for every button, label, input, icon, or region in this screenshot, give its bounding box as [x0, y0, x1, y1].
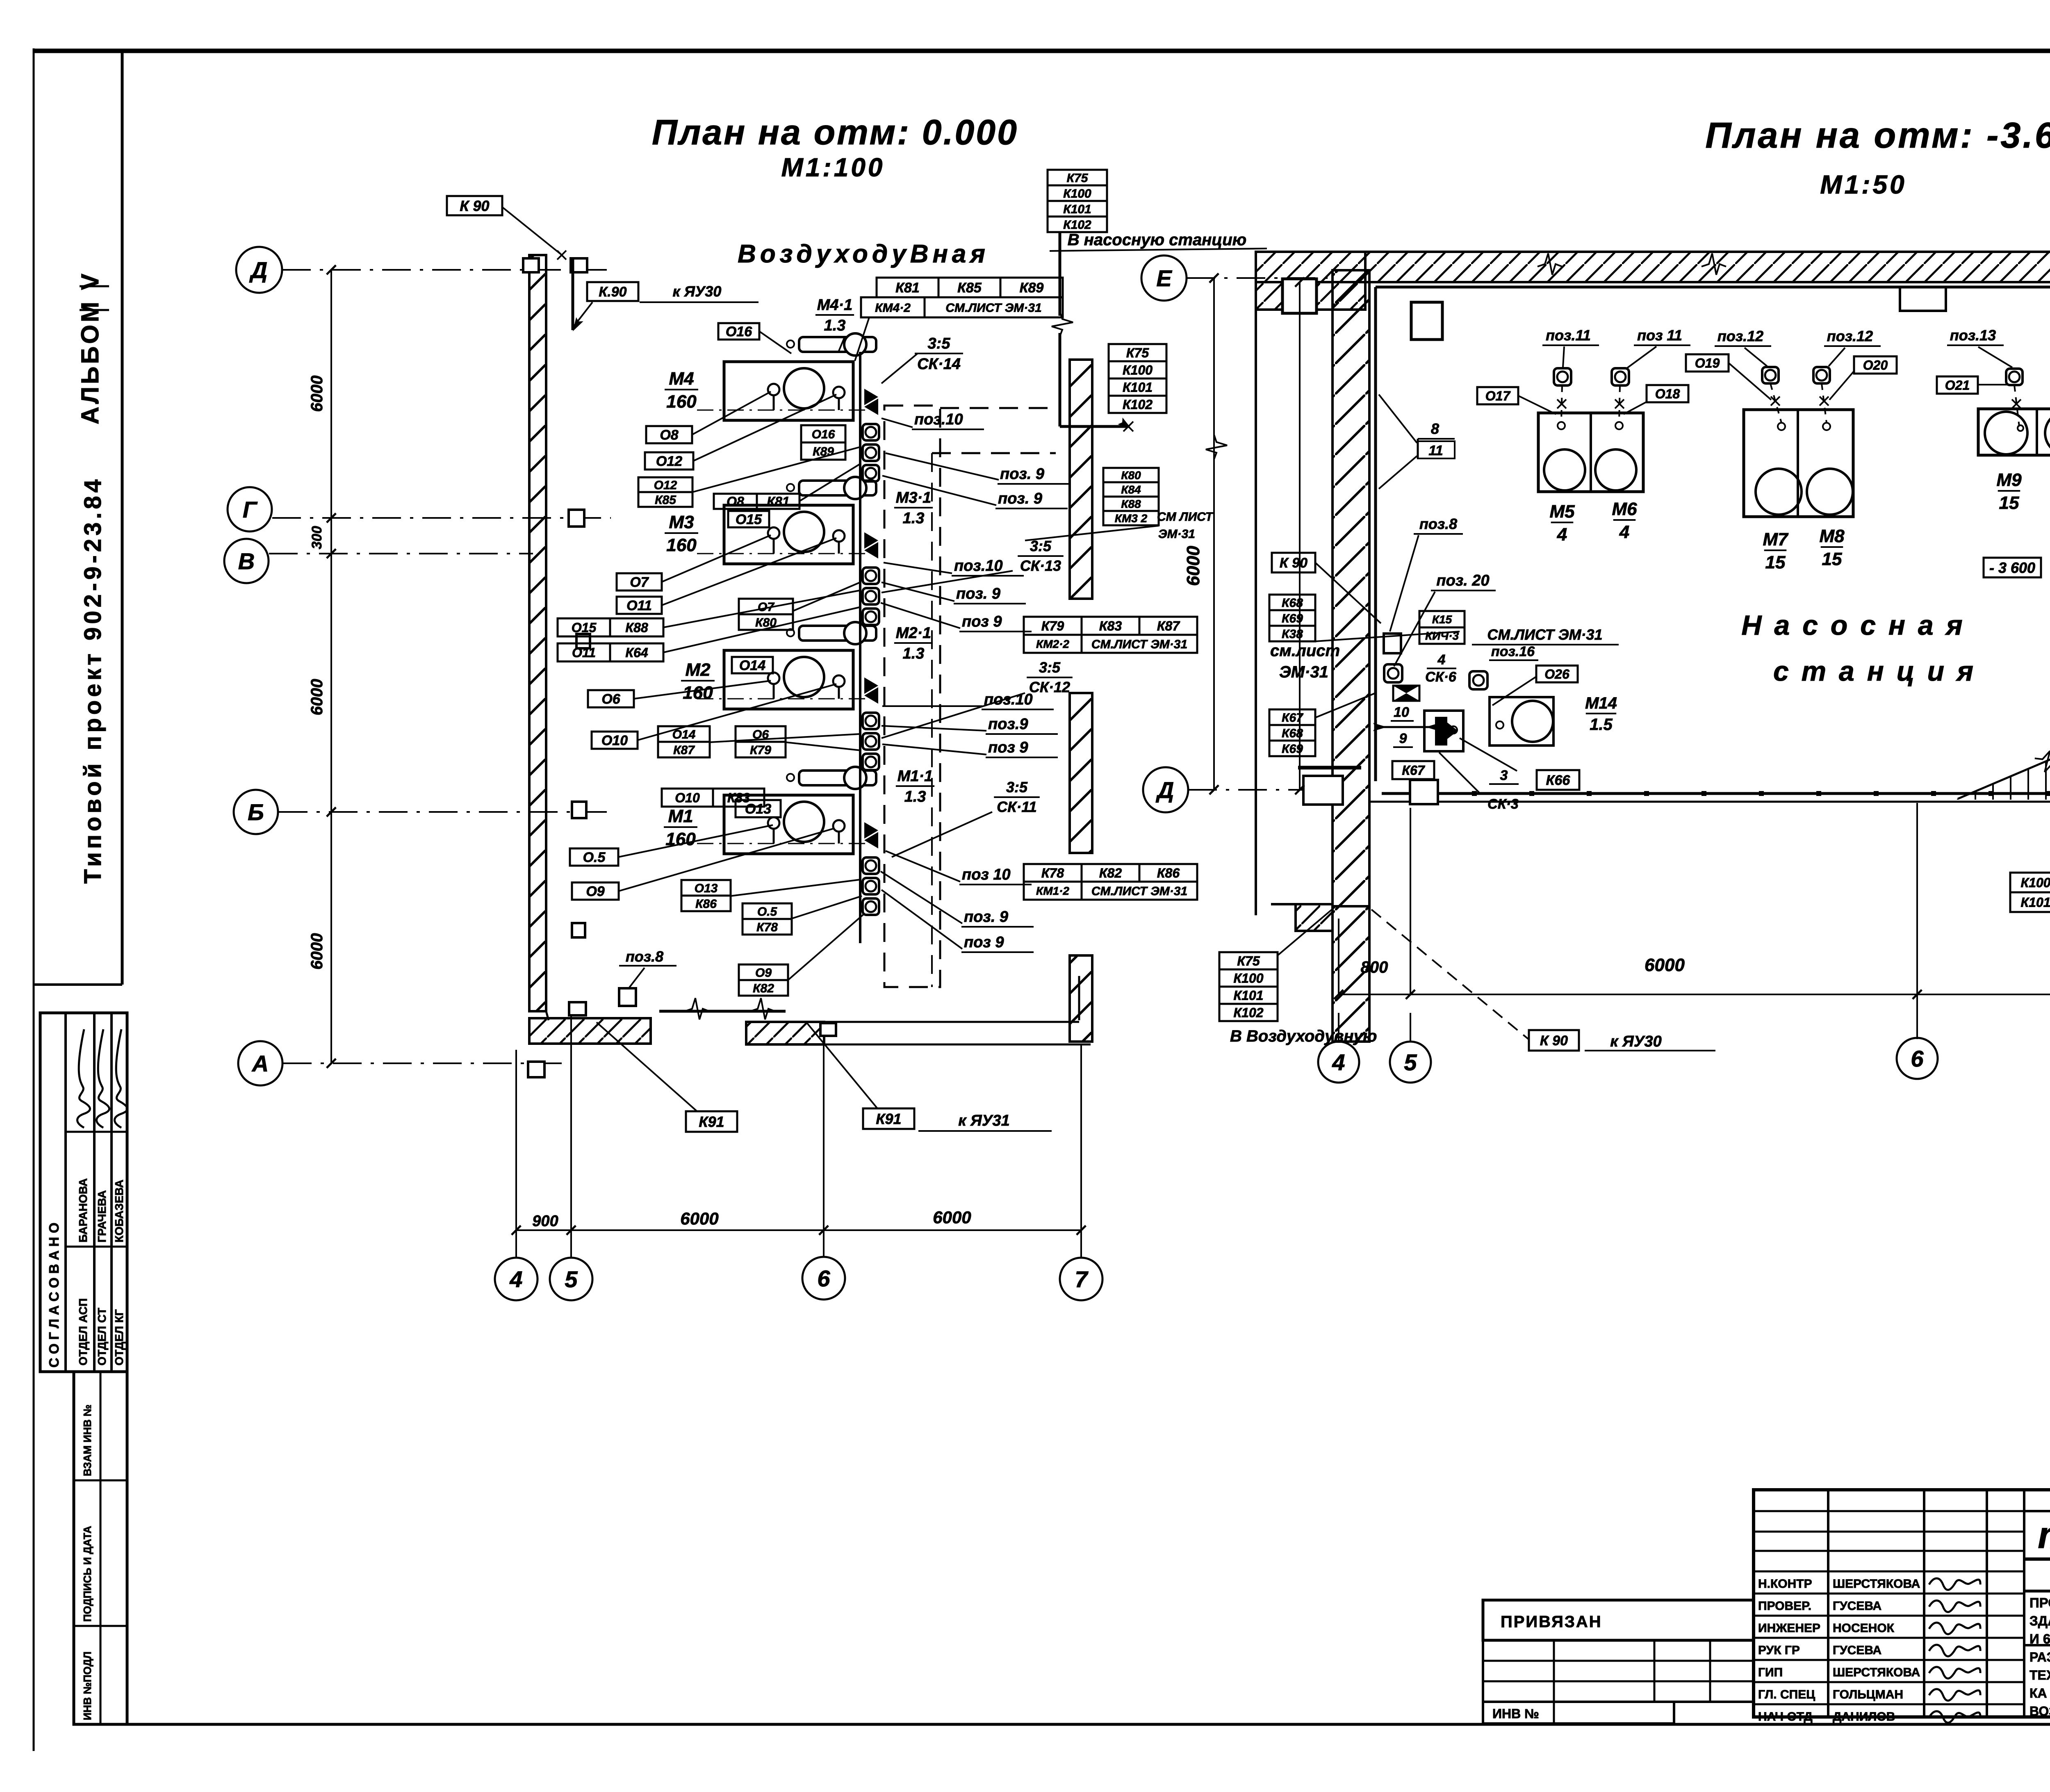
- svg-text:поз.9: поз.9: [988, 716, 1028, 733]
- svg-text:ГУСЕВА: ГУСЕВА: [1833, 1644, 1881, 1657]
- svg-text:7: 7: [1075, 1266, 1089, 1292]
- svg-text:ДАНИЛОВ: ДАНИЛОВ: [1833, 1710, 1895, 1724]
- svg-text:М3·1: М3·1: [896, 489, 932, 506]
- К91 к ЯУ31 label: [863, 1108, 914, 1129]
- тп number row: [2024, 1510, 2050, 1512]
- svg-text:6000: 6000: [1183, 546, 1203, 586]
- svg-text:см.лист: см.лист: [1270, 642, 1340, 660]
- label О11 К64: [558, 643, 610, 661]
- svg-text:15: 15: [1999, 493, 2019, 513]
- svg-text:11: 11: [1428, 443, 1443, 458]
- axis E circle: [1141, 255, 1187, 301]
- label О6 К79: [736, 726, 786, 742]
- stack K80: [1103, 468, 1159, 482]
- svg-text:ОТДЕЛ СТ: ОТДЕЛ СТ: [96, 1308, 108, 1366]
- svg-text:О11: О11: [572, 645, 596, 660]
- svg-text:поз. 20: поз. 20: [1436, 572, 1489, 589]
- inv no box: [1483, 1702, 1674, 1724]
- svg-text:К88: К88: [1121, 498, 1141, 511]
- svg-text:К102: К102: [1123, 397, 1153, 412]
- main title block: [1754, 1490, 2050, 1717]
- svg-text:3:5: 3:5: [928, 335, 951, 352]
- svg-text:6000: 6000: [680, 1209, 718, 1228]
- К90 к ЯУЗО bottom: [1529, 1030, 1579, 1051]
- label О12 К85: [638, 477, 692, 492]
- valve squares М3: [863, 568, 879, 584]
- pumps М5 М6: [1538, 413, 1643, 492]
- label О17: [1477, 387, 1518, 404]
- label О8 К81: [714, 494, 757, 509]
- svg-text:4: 4: [1437, 652, 1446, 668]
- svg-text:ЭМ·31: ЭМ·31: [1279, 663, 1328, 681]
- signatures rotated: [77, 1029, 90, 1128]
- svg-text:М4·1: М4·1: [817, 296, 853, 314]
- svg-text:СМ.ЛИСТ ЭМ·31: СМ.ЛИСТ ЭМ·31: [1091, 638, 1187, 651]
- svg-text:К66: К66: [1546, 773, 1571, 788]
- svg-text:160: 160: [666, 392, 697, 412]
- svg-text:К 90: К 90: [460, 197, 489, 214]
- svg-text:1.3: 1.3: [903, 645, 925, 662]
- svg-text:К83: К83: [1099, 619, 1122, 634]
- svg-text:К79: К79: [1041, 619, 1064, 634]
- pumps М9 М10: [1978, 409, 2050, 455]
- svg-text:поз. 9: поз. 9: [1000, 465, 1044, 483]
- svg-text:К81: К81: [767, 494, 789, 509]
- svg-text:К.90: К.90: [599, 284, 626, 300]
- axis D2 line: [1188, 789, 1332, 791]
- svg-text:В: В: [238, 548, 255, 574]
- svg-text:К15: К15: [1432, 613, 1452, 626]
- svg-text:К88: К88: [625, 620, 648, 635]
- svg-text:М1: М1: [668, 806, 693, 826]
- label К90 top: [447, 196, 502, 215]
- svg-text:ВОЗДУХОДУВНАЯ. НАСОСНАЯ СТАНЦИ: ВОЗДУХОДУВНАЯ. НАСОСНАЯ СТАНЦИЯ: [2029, 1704, 2050, 1719]
- svg-text:О10: О10: [675, 791, 700, 805]
- svg-text:М1·1: М1·1: [897, 768, 933, 785]
- svg-text:К101: К101: [1233, 988, 1263, 1003]
- svg-text:поз 9: поз 9: [962, 613, 1002, 630]
- svg-text:М2: М2: [685, 660, 711, 680]
- axis G line: [272, 517, 611, 519]
- valve СК6 area: [1469, 671, 1487, 689]
- К90 box right plan: [1272, 553, 1315, 572]
- label О20: [1854, 356, 1897, 374]
- svg-text:Д: Д: [249, 257, 267, 283]
- svg-text:поз 9: поз 9: [964, 934, 1004, 951]
- axis circle 6r: [1897, 1038, 1938, 1079]
- top wall breaks: [1537, 253, 1562, 275]
- svg-text:ЭМ·31: ЭМ·31: [1158, 527, 1195, 541]
- svg-text:ГИП: ГИП: [1758, 1666, 1783, 1679]
- valves above М5 М6: [1554, 368, 1571, 385]
- svg-text:В насосную станцию: В насосную станцию: [1068, 231, 1247, 249]
- svg-text:К101: К101: [1123, 380, 1153, 395]
- svg-text:ГУСЕВА: ГУСЕВА: [1833, 1599, 1881, 1613]
- leaders М1: [618, 825, 773, 857]
- svg-text:ВоздуходуВная: ВоздуходуВная: [738, 240, 989, 268]
- svg-text:1.5: 1.5: [1590, 716, 1613, 734]
- svg-text:М6: М6: [1612, 499, 1637, 519]
- valves above М9 М10: [2006, 369, 2023, 385]
- black valve М2: [864, 677, 878, 694]
- svg-text:К100: К100: [2020, 875, 2050, 890]
- svg-text:5: 5: [1404, 1049, 1417, 1075]
- top wall door niche: [1900, 287, 1946, 311]
- bottom-left pilaster: [1303, 776, 1343, 805]
- svg-text:О16: О16: [726, 324, 752, 340]
- axis circle 4r: [1318, 1042, 1359, 1083]
- svg-text:О8: О8: [660, 427, 678, 443]
- axis circle 5: [550, 1258, 592, 1300]
- bottom wall segment 2: [746, 1022, 824, 1044]
- svg-text:М1:100: М1:100: [781, 153, 885, 182]
- label О7 К80: [739, 599, 793, 614]
- svg-text:6000: 6000: [933, 1208, 971, 1227]
- stairs flight 1: [1958, 702, 2050, 799]
- svg-text:СК·11: СК·11: [997, 798, 1037, 815]
- svg-text:К82: К82: [753, 982, 774, 995]
- svg-text:К78: К78: [756, 921, 778, 934]
- svg-text:К83: К83: [727, 791, 750, 805]
- svg-text:К86: К86: [695, 897, 717, 911]
- blower unit М4: [724, 362, 853, 420]
- svg-text:НАЧ ОТД: НАЧ ОТД: [1758, 1710, 1813, 1724]
- К100 К102 table: [2010, 873, 2050, 892]
- label О12: [645, 452, 693, 470]
- pump hall left wall: [1255, 252, 1257, 915]
- envelope symbol: [1393, 686, 1419, 701]
- svg-text:1.3: 1.3: [903, 510, 925, 527]
- bottom wall segment 1: [529, 1018, 651, 1044]
- svg-text:СМ ЛИСТ: СМ ЛИСТ: [1157, 510, 1214, 524]
- svg-text:К64: К64: [625, 645, 648, 660]
- svg-text:поз.10: поз.10: [984, 691, 1033, 708]
- К75 stack bottom: [1219, 952, 1278, 969]
- table КМ2-2: [1024, 617, 1082, 635]
- svg-text:К85: К85: [655, 493, 676, 507]
- top-left column: [1282, 279, 1317, 313]
- svg-text:поз 11: поз 11: [1637, 327, 1682, 344]
- svg-text:СМ.ЛИСТ ЭМ·31: СМ.ЛИСТ ЭМ·31: [945, 301, 1041, 315]
- svg-text:ПРОИЗВОДСТВЕННО-ВСПОМОГАТЕЛЬНО: ПРОИЗВОДСТВЕННО-ВСПОМОГАТЕЛЬНОЕ: [2029, 1595, 2050, 1610]
- axis B line: [279, 811, 607, 813]
- svg-text:О12: О12: [656, 454, 682, 469]
- svg-text:8: 8: [1431, 420, 1439, 437]
- svg-text:К67: К67: [1402, 763, 1425, 778]
- svg-text:О9: О9: [755, 966, 772, 980]
- svg-text:ИНВ №: ИНВ №: [1492, 1706, 1539, 1721]
- svg-text:О12: О12: [654, 479, 677, 492]
- svg-text:М1:50: М1:50: [1820, 170, 1906, 199]
- black valve М1: [864, 822, 878, 839]
- cable tray dashed: [884, 406, 940, 987]
- svg-text:О11: О11: [626, 598, 652, 613]
- svg-text:ШЕРСТЯКОВА: ШЕРСТЯКОВА: [1833, 1666, 1920, 1679]
- svg-text:К84: К84: [1121, 483, 1141, 496]
- pump hall top wall: [1256, 251, 2050, 253]
- svg-text:4: 4: [1332, 1049, 1345, 1075]
- label О19: [1686, 354, 1729, 372]
- axis circle V: [224, 539, 269, 583]
- svg-text:КМ3 2: КМ3 2: [1115, 512, 1148, 525]
- svg-text:ПОДПИСЬ И ДАТА: ПОДПИСЬ И ДАТА: [81, 1526, 93, 1622]
- svg-text:К80: К80: [1121, 469, 1141, 482]
- label О11: [617, 597, 662, 614]
- К67 box: [1392, 761, 1434, 779]
- svg-text:СМ.ЛИСТ ЭМ·31: СМ.ЛИСТ ЭМ·31: [1091, 885, 1187, 898]
- svg-text:М9: М9: [1996, 470, 2022, 490]
- svg-text:800: 800: [1361, 958, 1388, 976]
- svg-text:План на отм: -3.600: План на отм: -3.600: [1705, 115, 2050, 155]
- svg-text:3:5: 3:5: [1006, 779, 1028, 796]
- label О9: [572, 882, 619, 900]
- svg-text:РУК ГР: РУК ГР: [1758, 1644, 1800, 1657]
- svg-text:ИНВ №ПОДЛ: ИНВ №ПОДЛ: [81, 1651, 93, 1720]
- svg-text:1.3: 1.3: [824, 317, 846, 334]
- svg-text:М5: М5: [1549, 502, 1575, 522]
- svg-text:15: 15: [1822, 549, 1842, 569]
- svg-text:ОТДЕЛ КГ: ОТДЕЛ КГ: [113, 1309, 125, 1366]
- svg-text:О.5: О.5: [757, 905, 778, 919]
- svg-text:О13: О13: [695, 882, 718, 895]
- axis V line: [269, 553, 533, 554]
- privyazan box: [1483, 1600, 1754, 1640]
- svg-text:План на отм: 0.000: План на отм: 0.000: [652, 113, 1018, 152]
- label О18: [1647, 385, 1688, 402]
- svg-text:СК·13: СК·13: [1020, 557, 1061, 574]
- svg-text:с т а н ц и я: с т а н ц и я: [1773, 656, 1976, 687]
- privyazan table: [1483, 1640, 1754, 1702]
- svg-text:О10: О10: [601, 733, 628, 748]
- axis circle 6: [802, 1257, 845, 1300]
- cable riser: [859, 352, 861, 943]
- svg-text:6: 6: [817, 1265, 830, 1291]
- blower unit М2: [724, 650, 853, 709]
- svg-text:К87: К87: [673, 743, 695, 757]
- svg-text:поз.12: поз.12: [1827, 328, 1873, 344]
- svg-text:О15: О15: [572, 620, 597, 635]
- svg-text:К79: К79: [750, 743, 771, 757]
- axis circle 5r: [1390, 1042, 1431, 1083]
- motor bar М2: [799, 626, 876, 641]
- label О21: [1937, 376, 1978, 394]
- motor bar М1: [799, 771, 876, 785]
- valves above М7 М8: [1762, 367, 1779, 383]
- label О15: [728, 511, 769, 527]
- svg-text:КМ2·2: КМ2·2: [1036, 638, 1069, 650]
- soglasovano table: [40, 1013, 127, 1372]
- left wall lower part: [1332, 906, 1369, 1042]
- svg-text:К86: К86: [1157, 866, 1180, 880]
- cable to pump station: [1059, 232, 1061, 316]
- bottom dim right plan: [1339, 994, 2050, 995]
- bottom dimension line left plan: [516, 1229, 1081, 1231]
- -3600 mark: [1984, 558, 2041, 577]
- svg-text:900: 900: [532, 1213, 558, 1230]
- vertical dimension chain: [330, 270, 332, 1063]
- svg-text:РАЗМЕЩЕНИЕ ПРИБОРОВ И УСТРОЙСТ: РАЗМЕЩЕНИЕ ПРИБОРОВ И УСТРОЙСТВ: [2029, 1650, 2050, 1664]
- label О13: [736, 800, 781, 817]
- label О16: [718, 323, 759, 340]
- svg-text:6000: 6000: [308, 679, 326, 716]
- svg-text:10: 10: [1394, 704, 1409, 720]
- К91 label 1: [686, 1111, 737, 1132]
- svg-text:Г: Г: [243, 497, 258, 522]
- svg-text:ВЗАМ ИНВ №: ВЗАМ ИНВ №: [81, 1404, 93, 1476]
- svg-text:ПРОВЕР.: ПРОВЕР.: [1758, 1599, 1811, 1613]
- svg-text:Типовой проект 902-9-23.84: Типовой проект 902-9-23.84: [80, 476, 106, 884]
- axis circle A: [238, 1041, 282, 1085]
- svg-text:М3: М3: [669, 512, 694, 532]
- svg-text:К89: К89: [1020, 280, 1044, 296]
- svg-text:Н а с о с н а я: Н а с о с н а я: [1741, 610, 1965, 641]
- svg-text:ЗДАНИЕ С 4 ВОЗДУХОДУВКАМИ ТВ-8: ЗДАНИЕ С 4 ВОЗДУХОДУВКАМИ ТВ-80-1,6: [2029, 1613, 2050, 1628]
- svg-text:НОСЕНОК: НОСЕНОК: [1833, 1621, 1895, 1635]
- svg-text:М14: М14: [1585, 694, 1617, 712]
- svg-text:СК·6: СК·6: [1425, 669, 1457, 685]
- axis circle B: [234, 790, 278, 834]
- svg-text:М2·1: М2·1: [896, 625, 932, 642]
- svg-text:ОТДЕЛ АСП: ОТДЕЛ АСП: [77, 1298, 89, 1366]
- svg-text:О18: О18: [1655, 387, 1680, 401]
- axis circle 4: [495, 1258, 538, 1300]
- svg-text:О14: О14: [739, 658, 765, 673]
- svg-text:К82: К82: [1099, 866, 1122, 880]
- svg-text:- 3 600: - 3 600: [1989, 559, 2035, 576]
- svg-text:С О Г Л А С О В А Н О: С О Г Л А С О В А Н О: [46, 1222, 61, 1368]
- label О26: [1536, 666, 1578, 682]
- svg-text:О9: О9: [586, 884, 604, 899]
- svg-text:КМ1·2: КМ1·2: [1036, 885, 1069, 897]
- svg-text:1.3: 1.3: [904, 788, 926, 805]
- label О8: [646, 426, 692, 443]
- К67 К68 К69 stack: [1269, 709, 1315, 725]
- svg-text:поз 9: поз 9: [988, 739, 1028, 756]
- svg-text:М8: М8: [1819, 526, 1845, 546]
- label О6: [588, 690, 634, 707]
- svg-text:БАРАНОВА: БАРАНОВА: [77, 1178, 89, 1243]
- svg-text:О19: О19: [1695, 356, 1720, 371]
- axis D line: [282, 269, 607, 271]
- left wall hatched band: [529, 255, 546, 1011]
- label О10 К83: [662, 789, 713, 807]
- svg-text:АЛЬБОМ V: АЛЬБОМ V: [76, 271, 104, 424]
- svg-text:6000: 6000: [1645, 955, 1685, 975]
- wall column markers: [523, 258, 539, 272]
- svg-text:поз. 9: поз. 9: [956, 585, 1000, 602]
- svg-text:6: 6: [1911, 1046, 1924, 1072]
- svg-text:О7: О7: [630, 575, 649, 590]
- svg-text:К100: К100: [1233, 971, 1263, 986]
- label О5: [570, 848, 618, 866]
- right wall segment 2: [1070, 693, 1092, 853]
- blower unit М3: [724, 505, 853, 564]
- svg-text:К102: К102: [1063, 218, 1091, 232]
- leaders М2: [634, 681, 771, 699]
- svg-text:К 90: К 90: [1540, 1033, 1568, 1049]
- svg-text:поз.12: поз.12: [1717, 328, 1763, 344]
- svg-text:К87: К87: [1157, 619, 1180, 634]
- label О5 К78: [743, 903, 792, 919]
- svg-text:поз.11: поз.11: [1546, 327, 1591, 344]
- svg-text:Д: Д: [1156, 777, 1174, 803]
- vertical dim 6000: [1213, 278, 1215, 790]
- svg-text:К101: К101: [2020, 895, 2050, 910]
- svg-text:ИНЖЕНЕР: ИНЖЕНЕР: [1758, 1621, 1820, 1635]
- svg-text:К75: К75: [1126, 346, 1149, 360]
- svg-text:К78: К78: [1041, 866, 1064, 880]
- stack K75 top: [1048, 170, 1107, 185]
- svg-text:поз.8: поз.8: [1419, 515, 1457, 532]
- svg-text:К102: К102: [1233, 1005, 1263, 1020]
- label О7: [617, 573, 662, 590]
- pumps М7 М8: [1744, 410, 1853, 517]
- svg-text:ПРИВЯЗАН: ПРИВЯЗАН: [1501, 1613, 1602, 1631]
- svg-text:поз 10: поз 10: [962, 866, 1011, 883]
- column at 5: [1411, 302, 1442, 340]
- svg-text:К101: К101: [1063, 203, 1091, 216]
- svg-text:О26: О26: [1544, 667, 1569, 682]
- valve squares М1: [863, 857, 879, 874]
- black valve М3: [864, 532, 878, 549]
- axis circle G: [228, 487, 272, 531]
- svg-text:160: 160: [666, 535, 697, 555]
- svg-text:поз.8: поз.8: [626, 948, 663, 965]
- svg-text:3:5: 3:5: [1039, 659, 1061, 676]
- blower unit М1: [724, 795, 853, 854]
- svg-text:М7: М7: [1763, 529, 1789, 549]
- svg-text:СМ.ЛИСТ ЭМ·31: СМ.ЛИСТ ЭМ·31: [1487, 626, 1602, 643]
- svg-text:К75: К75: [1237, 954, 1260, 969]
- svg-text:О6: О6: [601, 691, 620, 707]
- svg-text:поз.16: поз.16: [1491, 644, 1535, 659]
- label О16 К89: [801, 425, 845, 442]
- motor bar М3: [799, 481, 876, 495]
- svg-text:160: 160: [683, 683, 713, 703]
- svg-text:ГОЛЬЦМАН: ГОЛЬЦМАН: [1833, 1688, 1903, 1701]
- М14 unit: [1490, 697, 1553, 746]
- motor bar М4: [799, 337, 876, 352]
- table КМ1-2: [1024, 864, 1082, 882]
- label О9 К82: [739, 964, 788, 980]
- solenoid device: [1424, 711, 1463, 751]
- leaders М3: [662, 535, 771, 582]
- svg-text:К100: К100: [1063, 187, 1091, 201]
- svg-text:К 90: К 90: [1280, 555, 1307, 571]
- svg-text:О16: О16: [812, 428, 835, 441]
- svg-text:ТЕХНОЛОГИЧЕСКОГО КОНТРОЛЯ И ПР: ТЕХНОЛОГИЧЕСКОГО КОНТРОЛЯ И ПРОКЛАД-: [2029, 1668, 2050, 1683]
- svg-text:О20: О20: [1863, 358, 1888, 373]
- svg-text:к ЯУ30: к ЯУ30: [1610, 1033, 1662, 1050]
- right wall segment 1: [1070, 360, 1092, 599]
- svg-text:КОБАЗЕВА: КОБАЗЕВА: [113, 1180, 125, 1243]
- pump hall bottom wall/cable: [1382, 792, 2050, 795]
- stack K75 mid: [1109, 344, 1166, 361]
- svg-text:поз.13: поз.13: [1950, 327, 1996, 344]
- dim 6000 vertical inner: [1299, 282, 1301, 790]
- svg-text:О21: О21: [1945, 378, 1970, 393]
- svg-text:3: 3: [1500, 768, 1508, 783]
- black valve М4: [864, 389, 878, 405]
- svg-text:Б: Б: [248, 799, 264, 825]
- К68 К69 К38 stack: [1269, 595, 1315, 610]
- svg-text:6000: 6000: [308, 376, 326, 412]
- bottom wall corner right: [1078, 976, 1080, 1020]
- svg-text:ГРАЧЕВА: ГРАЧЕВА: [96, 1190, 108, 1243]
- svg-text:ШЕРСТЯКОВА: ШЕРСТЯКОВА: [1833, 1577, 1920, 1591]
- bottom wall markers: [569, 1002, 586, 1015]
- svg-text:тп 902-9-23.84: тп 902-9-23.84: [2038, 1514, 2050, 1556]
